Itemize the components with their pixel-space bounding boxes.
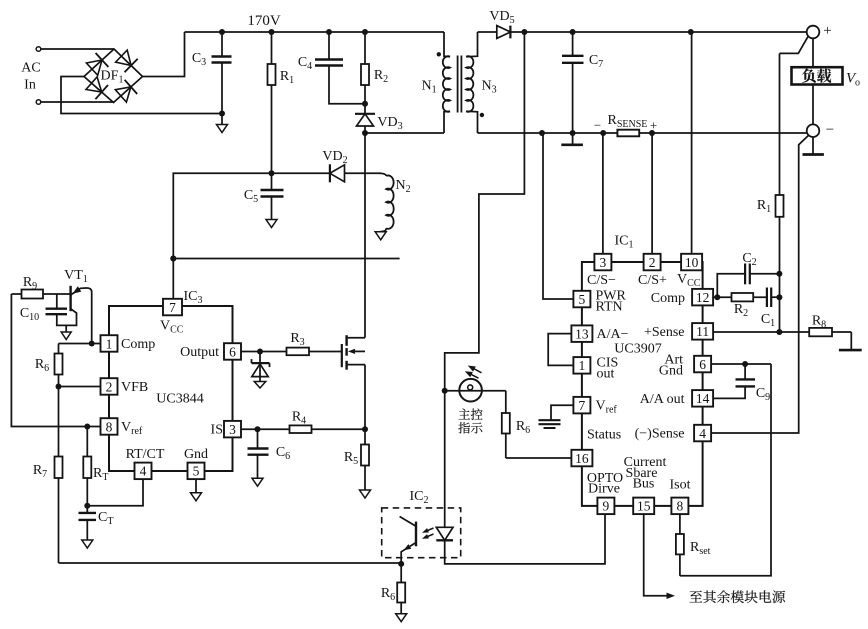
capacitor C5 <box>261 173 284 219</box>
pin 7 box (IC3 Vcc) <box>163 299 182 316</box>
wire pin6 ArtGnd <box>712 363 771 365</box>
opto light arrow 1 <box>422 528 434 533</box>
AC input terminal top <box>36 47 41 52</box>
ground below VT1 emitter <box>61 325 71 339</box>
resistor Rset <box>676 514 684 576</box>
label A/A- <box>597 327 629 342</box>
wire pin3 to Rsense- <box>602 133 604 254</box>
wire Rset to ArtGnd line <box>680 364 771 576</box>
svg-text:Bus: Bus <box>633 477 655 492</box>
pin 4 box (-Sense) <box>694 425 711 442</box>
label R1 (input) <box>280 69 294 86</box>
label R5 <box>344 450 358 467</box>
svg-text:−: − <box>826 122 834 138</box>
bridge diode upper-right <box>116 50 138 72</box>
wire bridge right vertex to 170V rail <box>143 32 185 77</box>
pin 3 box (IS) <box>224 421 241 438</box>
label RT <box>93 466 108 483</box>
pin 6 box (Output) <box>224 343 241 360</box>
pin 4 box (RT/CT) <box>135 463 152 480</box>
svg-text:7: 7 <box>579 398 586 413</box>
label Comp (IC1) <box>651 291 685 306</box>
ground below N2 <box>375 232 386 240</box>
pin 10 box (Vcc IC1) <box>681 254 702 270</box>
svg-text:7: 7 <box>169 300 176 315</box>
winding N3 <box>466 32 477 133</box>
wire R9 to pin8 <box>11 294 100 427</box>
resistor R6 (lamp) <box>502 391 510 458</box>
label - <box>826 122 834 138</box>
label UC3907 <box>614 342 661 357</box>
wire pin11 +Sense <box>712 331 852 333</box>
label to-other-modules (Chinese) <box>690 590 785 603</box>
wire AC top to bridge <box>41 48 114 50</box>
lamp light arrow 2 <box>465 371 479 378</box>
node R6-VFB <box>56 384 62 390</box>
wire pin2 to Rsense+ <box>651 133 653 254</box>
svg-text:Isot: Isot <box>670 478 691 493</box>
label CIS out <box>597 356 619 382</box>
label Vref (IC1) <box>596 399 618 416</box>
svg-text:RT/CT: RT/CT <box>126 447 165 462</box>
label Rset <box>690 540 711 557</box>
node pin3-C6 <box>255 426 261 432</box>
capacitor C6 <box>248 429 269 478</box>
label IS <box>211 423 223 438</box>
wire Vcc branch vertical <box>173 173 330 298</box>
label C3 <box>192 51 206 68</box>
optocoupler IC2 dashed box <box>382 508 461 558</box>
label C4 <box>298 55 312 72</box>
svg-text:A/A out: A/A out <box>640 392 685 407</box>
ground below gate diode <box>254 382 266 389</box>
wire MOSFET drain line <box>364 133 366 338</box>
pin 11 box (+Sense) <box>692 323 713 340</box>
node C2 right <box>776 271 782 277</box>
label (-)Sense <box>635 427 685 442</box>
node pin6-diode <box>257 349 263 355</box>
svg-text:170V: 170V <box>247 13 281 29</box>
svg-text:2: 2 <box>106 379 113 394</box>
label R6 (opto load) <box>381 586 395 603</box>
resistor R6 (opto load) <box>397 564 405 614</box>
svg-text:UC3907: UC3907 <box>614 342 661 357</box>
svg-text:Comp: Comp <box>651 291 685 306</box>
svg-text:11: 11 <box>696 324 709 339</box>
svg-text:−: − <box>594 118 601 133</box>
svg-text:4: 4 <box>699 426 706 441</box>
label R2 (comp) <box>734 302 748 319</box>
label C6 <box>276 445 290 462</box>
capacitor C2 <box>717 264 779 298</box>
label N2 <box>395 178 410 195</box>
resistor R4 <box>290 425 312 433</box>
svg-text:IS: IS <box>211 423 223 438</box>
wire pin13-pin1 jumper <box>548 334 573 366</box>
label VT1 <box>64 268 88 285</box>
ground below C6 <box>252 478 263 486</box>
bridge rectifier DF1 diamond <box>84 49 143 103</box>
opto LED <box>436 527 453 540</box>
wire node to pin1 <box>92 343 101 345</box>
label C10 <box>20 306 39 323</box>
svg-text:A/A−: A/A− <box>597 327 629 342</box>
indicator lamp circle <box>459 379 482 402</box>
wire MOSFET source <box>364 365 366 430</box>
wire pin3 to source node <box>241 428 365 430</box>
transformer core <box>458 56 462 113</box>
ground below C3 <box>217 114 228 133</box>
indicator lamp inner dot <box>468 385 473 390</box>
label PWR RTN <box>596 289 627 315</box>
wire 170V rail <box>185 31 445 33</box>
svg-text:3: 3 <box>229 422 236 437</box>
node opto emitter-R6 <box>398 561 404 567</box>
ground below R5 <box>360 490 371 498</box>
AC input terminal bottom <box>36 100 41 105</box>
node VT1-pin1 <box>89 341 95 347</box>
bridge diode upper-left <box>86 53 108 75</box>
pin 7 box (Vref IC1) <box>573 397 590 414</box>
node pin5 return <box>539 130 545 136</box>
winding N2 <box>380 173 394 231</box>
svg-text:8: 8 <box>106 419 113 434</box>
wire N3 top to VD5 <box>478 31 497 33</box>
label R2 (snubber) <box>374 68 388 85</box>
svg-text:C/S+: C/S+ <box>638 273 667 288</box>
wire pin4 to -terminal <box>712 135 809 433</box>
ground below opto R6 <box>396 614 407 622</box>
ground below pin5 <box>191 493 202 501</box>
label VD2 <box>322 149 347 166</box>
pin 9 box (OPTO) <box>597 498 614 514</box>
output terminal - <box>807 124 820 137</box>
node 170V-R1 <box>269 29 275 35</box>
label C/S- <box>587 273 616 288</box>
pin 2 box (C/S+) <box>644 254 661 270</box>
svg-text:Status: Status <box>587 428 621 443</box>
node comp <box>714 294 720 300</box>
pin 12 box (Comp IC1) <box>692 289 713 306</box>
label VFB <box>121 380 148 395</box>
wire N1 bottom to drain node <box>365 132 444 134</box>
node Vcc-branch/pin7 <box>170 256 176 262</box>
wire VD5 node to indicator feed <box>445 32 525 391</box>
label Comp <box>121 337 155 352</box>
lamp light arrow 1 <box>468 366 482 373</box>
svg-text:5: 5 <box>193 464 200 479</box>
wire pin12 comp node <box>712 296 718 298</box>
opto phototransistor <box>400 517 416 564</box>
node 170V-R2 <box>362 29 368 35</box>
node Rsense left <box>600 130 606 136</box>
wire bridge left vertex to DC- rail <box>61 77 222 114</box>
node R2-C4-VD3 <box>362 101 368 107</box>
capacitor CT <box>79 506 97 540</box>
svg-text:14: 14 <box>696 391 710 406</box>
transistor VT1 <box>71 286 92 344</box>
svg-text:(−)Sense: (−)Sense <box>635 427 685 442</box>
wire AC bottom to bridge <box>41 101 114 103</box>
node pin8-RT <box>84 424 90 430</box>
node VD3-N1-drain <box>362 130 368 136</box>
wire + terminal to R1 <box>780 37 808 54</box>
pin 6 box (Art Gnd) <box>694 356 711 373</box>
node Vcc pickup <box>688 29 694 35</box>
pin 5 box (PWR RTN) <box>573 291 590 308</box>
svg-text:13: 13 <box>575 326 589 341</box>
svg-text:out: out <box>597 367 615 382</box>
bridge diode lower-left <box>86 77 108 99</box>
svg-text:Output: Output <box>180 345 219 360</box>
svg-text:+: + <box>650 118 657 133</box>
pin 15 box (Share Bus) <box>633 498 654 514</box>
svg-text:+Sense: +Sense <box>644 325 685 340</box>
label R8 <box>812 314 826 331</box>
resistor R9 <box>11 290 70 299</box>
resistor R8 <box>809 328 832 336</box>
wire pin5 to ground <box>195 479 197 493</box>
label N3 <box>481 79 496 96</box>
label Current Sbare Bus <box>624 455 667 492</box>
label master-indicator (Chinese) <box>458 409 482 434</box>
svg-text:Gnd: Gnd <box>184 447 208 462</box>
label R6 (lamp) <box>516 419 530 436</box>
wire output + rail <box>510 31 806 33</box>
label RT/CT <box>126 447 165 462</box>
node Vcc branch split <box>170 256 176 262</box>
svg-text:AC: AC <box>21 61 40 76</box>
label Vcc (IC3) <box>160 319 184 336</box>
pin 1 box (CIS out) <box>573 357 590 374</box>
node C1 right <box>776 294 782 300</box>
label UC3844 <box>156 392 203 407</box>
MOSFET Q1 <box>342 335 365 370</box>
wire pin5 to -rail <box>543 133 573 299</box>
svg-text:9: 9 <box>603 499 610 514</box>
bridge diode lower-right <box>115 80 137 102</box>
node C7 bottom <box>570 130 576 136</box>
svg-text:6: 6 <box>229 344 236 359</box>
node C9 top <box>742 361 748 367</box>
wire through lamp <box>445 390 506 392</box>
wire R7 to opto emitter <box>59 562 402 564</box>
label C/S+ <box>638 273 667 288</box>
node +Sense junction <box>776 329 782 335</box>
wire pin6 to gate <box>241 351 342 353</box>
svg-text:2: 2 <box>649 255 656 270</box>
label R3 <box>290 331 304 348</box>
svg-text:16: 16 <box>575 451 589 466</box>
resistor R2 (comp) <box>717 293 767 301</box>
label Status <box>587 428 621 443</box>
label Output <box>180 345 219 360</box>
label CT <box>98 510 113 527</box>
svg-text:Gnd: Gnd <box>659 364 683 379</box>
resistor R1 (input) <box>268 32 276 173</box>
label AC In <box>21 61 40 93</box>
node DC- bottom C3 <box>219 111 225 117</box>
svg-text:4: 4 <box>140 464 147 479</box>
label C7 <box>589 53 603 70</box>
zener diode at gate drive <box>252 352 270 382</box>
label Vo <box>846 71 860 89</box>
label R6 (divider) <box>35 357 49 374</box>
label +Sense <box>644 325 685 340</box>
diode VD5 <box>497 26 511 39</box>
svg-text:6: 6 <box>699 357 706 372</box>
pin 8 box (Vref IC3) <box>101 418 118 435</box>
svg-text:3: 3 <box>600 255 607 270</box>
label R4 <box>292 410 306 427</box>
resistor R5 <box>361 429 369 490</box>
label A/A out <box>640 392 685 407</box>
node VD5 out <box>521 29 527 35</box>
resistor R1 (sense divider) <box>776 53 784 332</box>
label R9 <box>23 275 37 292</box>
ground below CT <box>82 540 93 548</box>
label load (Chinese) <box>802 69 831 83</box>
resistor R3 <box>287 348 310 356</box>
pin 1 box (Comp) <box>101 335 118 352</box>
label OPTO Dirve <box>587 471 623 497</box>
node indicator lamp <box>442 388 448 394</box>
capacitor C9 <box>712 364 755 398</box>
pin 3 box (C/S-) <box>594 254 611 270</box>
load wire + <box>812 38 814 67</box>
label N1 <box>421 79 436 96</box>
phase dot N3 <box>480 113 484 117</box>
wire VD2 to N2 <box>345 172 381 174</box>
capacitor C10 <box>46 294 77 325</box>
wire comp to R6 <box>59 343 92 345</box>
svg-text:RTN: RTN <box>596 300 623 315</box>
wire pin7 to cap <box>551 405 573 420</box>
label C2 <box>742 251 756 268</box>
wire lamp R6 to pin16 <box>506 457 572 459</box>
label R7 <box>33 463 47 480</box>
wire pin10 to +rail <box>691 32 693 254</box>
svg-text:Dirve: Dirve <box>588 482 620 497</box>
diode VD2 <box>330 164 345 182</box>
svg-text:VFB: VFB <box>121 380 148 395</box>
capacitor at Vref (IC1) <box>539 420 561 428</box>
resistor R7 <box>55 387 63 564</box>
load wire - <box>812 85 814 125</box>
wire output - rail <box>478 132 808 134</box>
label Art Gnd <box>659 353 683 379</box>
pin 16 box (Status) <box>571 450 592 467</box>
resistor RT <box>83 427 91 506</box>
label R1 (sense divider) <box>757 198 771 215</box>
svg-text:5: 5 <box>579 292 586 307</box>
resistor R6 (divider) <box>55 344 63 387</box>
label IC1 <box>615 234 634 251</box>
pin 2 box (VFB) <box>101 378 118 395</box>
pin 14 box (A/A out) <box>692 390 713 407</box>
svg-text:15: 15 <box>637 499 651 514</box>
node 170V-C3 <box>219 29 225 35</box>
earth after R8 <box>839 332 862 350</box>
phase dot N1 <box>437 52 441 56</box>
wire opto LED cathode to pin9 <box>445 514 605 564</box>
label VD5 <box>489 9 514 26</box>
label C1 <box>761 312 775 329</box>
label Gnd (IC3) <box>184 447 208 462</box>
label RSENSE <box>594 113 657 133</box>
capacitor C4 <box>315 32 365 104</box>
wire pin15 to other modules <box>644 514 675 599</box>
wire pin4 to RT/CT <box>87 479 143 506</box>
label IC2 <box>410 489 429 506</box>
svg-text:+: + <box>823 23 831 39</box>
svg-text:1: 1 <box>579 358 586 373</box>
chassis ground below C7 <box>561 133 583 145</box>
node RT-CT-pin4 <box>84 503 90 509</box>
IC U1 UC3907 body <box>582 262 703 506</box>
label IC3 <box>184 289 203 306</box>
earth below - terminal <box>803 137 824 155</box>
node Rsense right <box>649 130 655 136</box>
capacitor C3 <box>212 32 232 114</box>
svg-text:8: 8 <box>677 499 684 514</box>
svg-text:UC3844: UC3844 <box>156 392 203 407</box>
svg-text:10: 10 <box>685 255 699 270</box>
wire node to pin2 <box>59 386 101 388</box>
pin 5 box (Gnd IC3) <box>188 463 205 480</box>
label Vcc (IC1) <box>677 272 701 289</box>
pin 13 box (A/A-) <box>571 325 592 342</box>
label C5 <box>244 188 258 205</box>
node source-R4-R5 <box>362 426 368 432</box>
output terminal + <box>807 26 820 39</box>
wire Vcc-branch to optocoupler <box>173 258 399 260</box>
label + <box>823 23 831 39</box>
capacitor C7 <box>562 32 584 133</box>
label 170V <box>247 13 281 29</box>
node C5-R1 <box>269 170 275 176</box>
label Isot <box>670 478 691 493</box>
label Vref (IC3) <box>121 420 143 437</box>
node 170V-C4 <box>326 29 332 35</box>
svg-text:1: 1 <box>106 336 113 351</box>
resistor R2 (snubber) <box>361 32 369 114</box>
capacitor C1 <box>767 288 780 308</box>
label C9 <box>756 386 770 403</box>
resistor RSENSE <box>617 130 639 137</box>
svg-text:12: 12 <box>696 290 710 305</box>
wire lamp node to opto LED <box>444 391 446 527</box>
label DF1 <box>101 69 124 86</box>
pin 8 box (Isot) <box>671 498 688 514</box>
load box <box>792 67 843 84</box>
svg-text:o: o <box>855 78 860 89</box>
svg-text:In: In <box>24 78 36 93</box>
diode VD3 <box>355 114 375 133</box>
opto light arrow 2 <box>422 534 434 539</box>
IC U3 UC3844 body <box>109 306 233 471</box>
node C7 top <box>570 29 576 35</box>
label VD3 <box>377 115 402 132</box>
svg-text:Comp: Comp <box>121 337 155 352</box>
svg-text:C/S−: C/S− <box>587 273 616 288</box>
ground below C5 <box>266 220 277 228</box>
winding N1 <box>443 32 450 133</box>
